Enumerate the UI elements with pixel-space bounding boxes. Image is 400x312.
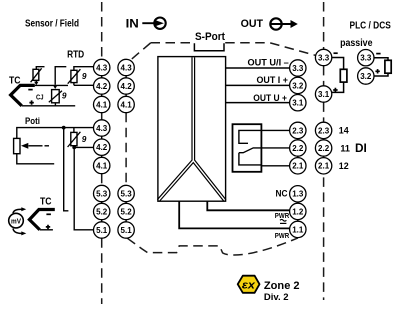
svg-text:mV: mV (11, 218, 21, 225)
svg-text:4.2: 4.2 (96, 143, 108, 152)
svg-text:3.3: 3.3 (292, 64, 304, 73)
svg-text:2.2: 2.2 (318, 144, 330, 153)
svg-text:1.1: 1.1 (292, 225, 304, 234)
svg-text:εx: εx (242, 280, 256, 292)
svg-text:S-Port: S-Port (195, 31, 225, 43)
svg-text:OUT I +: OUT I + (257, 75, 288, 85)
svg-text:3.1: 3.1 (318, 90, 330, 99)
svg-text:TC: TC (40, 197, 52, 208)
svg-text:14: 14 (339, 125, 350, 136)
svg-text:passive: passive (340, 38, 373, 49)
svg-text:4.1: 4.1 (121, 100, 133, 109)
svg-text:4.1: 4.1 (96, 161, 108, 170)
svg-text:RTD: RTD (67, 50, 84, 61)
svg-text:1.3: 1.3 (292, 190, 304, 199)
svg-text:4.3: 4.3 (96, 124, 108, 133)
svg-text:9: 9 (82, 134, 87, 144)
svg-text:1.2: 1.2 (292, 207, 304, 216)
svg-text:4.3: 4.3 (121, 63, 133, 72)
svg-text:Poti: Poti (25, 116, 40, 127)
svg-text:4.2: 4.2 (121, 82, 133, 91)
svg-text:9: 9 (82, 71, 87, 81)
svg-text:5.2: 5.2 (121, 207, 133, 216)
svg-text:TC: TC (9, 75, 21, 86)
svg-text:3.2: 3.2 (292, 81, 304, 90)
svg-text:5.1: 5.1 (96, 226, 108, 235)
svg-text:9: 9 (62, 91, 67, 101)
svg-text:IN: IN (126, 18, 139, 31)
svg-text:3.3: 3.3 (360, 54, 372, 63)
svg-text:4.3: 4.3 (96, 63, 108, 72)
svg-text:2.1: 2.1 (318, 162, 330, 171)
svg-text:Zone 2: Zone 2 (264, 280, 300, 292)
svg-text:5.1: 5.1 (121, 226, 133, 235)
svg-text:3.2: 3.2 (360, 72, 372, 81)
svg-text:2.3: 2.3 (318, 126, 330, 135)
svg-text:11: 11 (340, 143, 350, 154)
svg-text:4.1: 4.1 (96, 100, 108, 109)
svg-text:Sensor / Field: Sensor / Field (25, 18, 79, 29)
svg-text:3.3: 3.3 (318, 53, 330, 62)
svg-text:OUT U +: OUT U + (253, 93, 287, 103)
svg-text:CJ: CJ (36, 93, 44, 102)
svg-text:DI: DI (355, 141, 367, 155)
svg-text:NC: NC (276, 189, 288, 199)
svg-text:2.1: 2.1 (292, 162, 304, 171)
svg-text:5.2: 5.2 (96, 207, 108, 216)
svg-text:PWR: PWR (275, 233, 289, 240)
svg-text:3.1: 3.1 (292, 99, 304, 108)
svg-text:OUT: OUT (241, 18, 263, 30)
svg-text:Div. 2: Div. 2 (264, 292, 289, 302)
svg-text:5.3: 5.3 (121, 189, 133, 198)
svg-text:12: 12 (339, 160, 349, 171)
svg-text:2.3: 2.3 (292, 126, 304, 135)
svg-text:OUT U/I –: OUT U/I – (248, 58, 289, 68)
svg-text:5.3: 5.3 (96, 189, 108, 198)
svg-text:PLC / DCS: PLC / DCS (350, 21, 391, 32)
svg-text:2.2: 2.2 (292, 144, 304, 153)
svg-text:4.2: 4.2 (96, 82, 108, 91)
